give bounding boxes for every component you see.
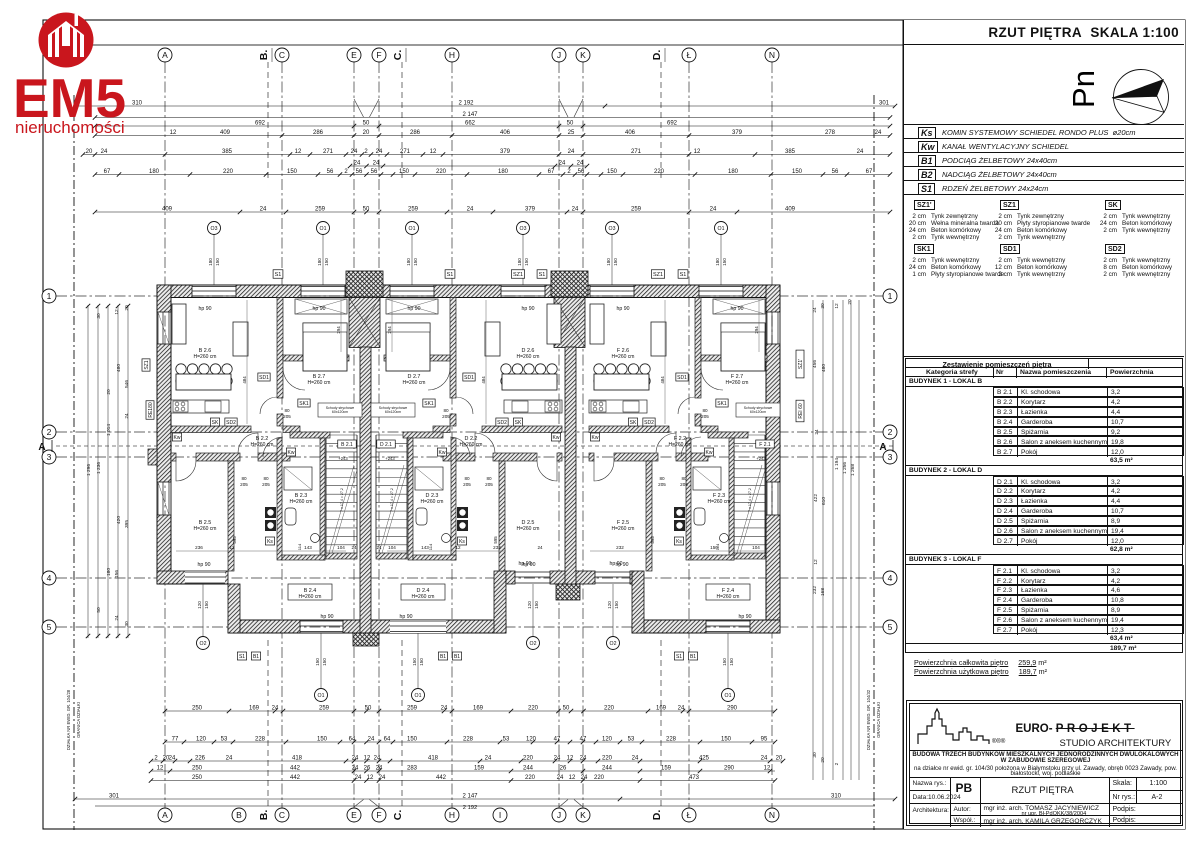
svg-text:80: 80 bbox=[241, 476, 247, 481]
svg-text:+243: +243 bbox=[338, 456, 348, 461]
interior walls bbox=[277, 298, 283, 399]
svg-text:26: 26 bbox=[364, 765, 371, 771]
svg-text:O1: O1 bbox=[415, 693, 422, 699]
svg-text:2: 2 bbox=[47, 427, 52, 437]
svg-text:226: 226 bbox=[195, 755, 206, 761]
svg-text:205: 205 bbox=[240, 482, 248, 487]
svg-text:205: 205 bbox=[485, 482, 493, 487]
svg-text:150: 150 bbox=[729, 658, 734, 666]
svg-text:409: 409 bbox=[220, 130, 231, 136]
svg-text:D.: D. bbox=[651, 810, 663, 821]
svg-text:O2: O2 bbox=[530, 641, 537, 647]
svg-text:SZ1: SZ1 bbox=[653, 272, 663, 278]
svg-text:hp 90: hp 90 bbox=[731, 306, 744, 312]
svg-text:1: 1 bbox=[888, 291, 893, 301]
svg-text:168: 168 bbox=[820, 588, 826, 596]
axis circles top bbox=[158, 48, 172, 62]
svg-text:24: 24 bbox=[114, 615, 120, 621]
svg-text:O1: O1 bbox=[318, 693, 325, 699]
svg-text:286: 286 bbox=[410, 130, 421, 136]
sofa and table bbox=[590, 304, 604, 344]
svg-text:hp 90: hp 90 bbox=[199, 306, 212, 312]
svg-text:A: A bbox=[162, 50, 168, 60]
svg-text:150: 150 bbox=[524, 258, 529, 266]
svg-text:220: 220 bbox=[528, 705, 539, 711]
svg-text:20: 20 bbox=[776, 755, 783, 761]
svg-text:205: 205 bbox=[463, 482, 471, 487]
svg-text:24: 24 bbox=[351, 149, 358, 155]
svg-text:12: 12 bbox=[430, 149, 437, 155]
svg-text:205: 205 bbox=[680, 482, 688, 487]
svg-text:385: 385 bbox=[222, 149, 233, 155]
svg-text:150: 150 bbox=[607, 169, 618, 175]
svg-text:169: 169 bbox=[249, 705, 260, 711]
svg-text:O3: O3 bbox=[609, 226, 616, 232]
svg-text:S1: S1 bbox=[447, 272, 454, 278]
svg-text:DZIAŁKA NR EWID. GR. 104/28: DZIAŁKA NR EWID. GR. 104/28 bbox=[66, 689, 71, 750]
wall labels bottom bbox=[237, 652, 246, 660]
middle bottom wall section bbox=[506, 571, 515, 584]
bed bbox=[721, 323, 765, 371]
svg-text:67: 67 bbox=[866, 169, 873, 175]
svg-text:12: 12 bbox=[694, 149, 701, 155]
svg-text:24: 24 bbox=[373, 160, 380, 166]
svg-text:205: 205 bbox=[658, 482, 666, 487]
svg-text:Kw: Kw bbox=[174, 435, 181, 441]
svg-text:24: 24 bbox=[580, 755, 587, 761]
kitchen counter & hob bbox=[504, 400, 562, 413]
svg-text:53: 53 bbox=[628, 736, 635, 742]
svg-text:SK1: SK1 bbox=[424, 401, 434, 407]
svg-text:425: 425 bbox=[699, 755, 710, 761]
bathroom bbox=[686, 438, 691, 560]
svg-text:150: 150 bbox=[614, 601, 619, 609]
svg-text:S1: S1 bbox=[680, 272, 687, 278]
svg-text:B 2.1: B 2.1 bbox=[341, 442, 353, 448]
svg-text:B: B bbox=[236, 810, 242, 820]
svg-text:24: 24 bbox=[441, 705, 448, 711]
svg-text:24: 24 bbox=[374, 755, 381, 761]
svg-text:480: 480 bbox=[116, 364, 122, 372]
svg-text:24: 24 bbox=[557, 775, 564, 781]
svg-text:143: 143 bbox=[421, 545, 429, 550]
svg-text:24: 24 bbox=[875, 130, 882, 136]
svg-text:O1: O1 bbox=[725, 693, 732, 699]
svg-text:180: 180 bbox=[728, 169, 739, 175]
svg-text:SD2: SD2 bbox=[226, 420, 236, 426]
svg-text:B1: B1 bbox=[440, 654, 446, 660]
svg-text:12: 12 bbox=[157, 765, 164, 771]
svg-text:K: K bbox=[580, 50, 586, 60]
svg-text:24: 24 bbox=[376, 765, 383, 771]
svg-text:220: 220 bbox=[523, 755, 534, 761]
svg-text:484: 484 bbox=[660, 376, 665, 384]
flue block Ks bbox=[457, 507, 468, 518]
svg-text:159: 159 bbox=[661, 765, 672, 771]
svg-text:1 236: 1 236 bbox=[96, 462, 102, 474]
svg-text:12: 12 bbox=[295, 149, 302, 155]
svg-text:385: 385 bbox=[785, 149, 796, 155]
svg-text:220: 220 bbox=[594, 775, 605, 781]
bathroom bbox=[408, 438, 413, 560]
svg-text:2: 2 bbox=[888, 427, 893, 437]
wardrobe with X bbox=[713, 299, 765, 314]
svg-text:1: 1 bbox=[47, 291, 52, 301]
exterior top wall bbox=[157, 285, 192, 298]
svg-text:150: 150 bbox=[534, 601, 539, 609]
svg-text:159: 159 bbox=[474, 765, 485, 771]
svg-text:O3: O3 bbox=[520, 226, 527, 232]
svg-text:180: 180 bbox=[517, 258, 522, 266]
kitchen counter & hob bbox=[589, 400, 647, 413]
svg-text:47: 47 bbox=[580, 736, 587, 742]
svg-text:442: 442 bbox=[290, 765, 301, 771]
svg-text:REI 60: REI 60 bbox=[798, 403, 804, 419]
svg-text:114: 114 bbox=[297, 543, 302, 550]
svg-text:D.: D. bbox=[651, 50, 663, 61]
svg-text:24: 24 bbox=[351, 545, 357, 550]
svg-text:SK: SK bbox=[212, 420, 219, 426]
svg-text:24: 24 bbox=[710, 206, 717, 212]
svg-text:12: 12 bbox=[455, 545, 461, 550]
stair flight bbox=[734, 434, 765, 436]
svg-text:24: 24 bbox=[814, 429, 820, 435]
svg-text:104: 104 bbox=[337, 545, 345, 550]
svg-text:50: 50 bbox=[567, 120, 574, 126]
svg-text:30: 30 bbox=[96, 313, 102, 319]
svg-text:12: 12 bbox=[834, 303, 840, 309]
svg-text:150: 150 bbox=[215, 258, 220, 266]
chimney protrusion middle bottom bbox=[556, 584, 580, 600]
svg-text:26: 26 bbox=[560, 765, 567, 771]
svg-text:150: 150 bbox=[419, 658, 424, 666]
svg-text:1 296: 1 296 bbox=[86, 464, 92, 476]
svg-text:80: 80 bbox=[659, 476, 665, 481]
svg-text:B1: B1 bbox=[253, 654, 259, 660]
svg-text:418: 418 bbox=[292, 755, 303, 761]
svg-text:1 256: 1 256 bbox=[842, 462, 848, 474]
svg-text:220: 220 bbox=[436, 169, 447, 175]
svg-text:80: 80 bbox=[681, 476, 687, 481]
svg-text:F 2.1: F 2.1 bbox=[759, 442, 771, 448]
interior walls bbox=[695, 298, 701, 399]
svg-text:150: 150 bbox=[721, 736, 732, 742]
bottom wall left section (axis 4) bbox=[157, 571, 228, 584]
svg-text:259: 259 bbox=[631, 206, 642, 212]
svg-text:150: 150 bbox=[710, 545, 718, 550]
svg-text:4: 4 bbox=[888, 573, 893, 583]
svg-text:220: 220 bbox=[604, 705, 615, 711]
svg-text:7 x 17,4 = 27,2: 7 x 17,4 = 27,2 bbox=[340, 488, 344, 512]
svg-text:H=260 cm: H=260 cm bbox=[194, 354, 217, 360]
svg-text:180: 180 bbox=[715, 258, 720, 266]
svg-text:24: 24 bbox=[812, 307, 818, 313]
svg-text:24: 24 bbox=[572, 206, 579, 212]
svg-text:80: 80 bbox=[443, 408, 449, 413]
axis circles left/right bbox=[42, 289, 56, 303]
svg-text:77: 77 bbox=[172, 736, 179, 742]
svg-text:24: 24 bbox=[260, 206, 267, 212]
svg-text:294: 294 bbox=[754, 326, 759, 334]
svg-text:220: 220 bbox=[602, 755, 613, 761]
svg-text:150: 150 bbox=[407, 736, 418, 742]
north arrow Pn bbox=[904, 45, 1186, 145]
svg-text:J: J bbox=[557, 50, 561, 60]
svg-text:379: 379 bbox=[732, 130, 743, 136]
svg-text:24: 24 bbox=[577, 160, 584, 166]
svg-text:205: 205 bbox=[701, 414, 709, 419]
svg-text:150: 150 bbox=[792, 169, 803, 175]
svg-text:24: 24 bbox=[581, 775, 588, 781]
svg-text:228: 228 bbox=[255, 736, 266, 742]
svg-text:®®®: ®®® bbox=[992, 738, 1006, 745]
svg-text:395: 395 bbox=[124, 520, 130, 528]
svg-text:H: H bbox=[449, 810, 455, 820]
svg-text:220: 220 bbox=[654, 169, 665, 175]
svg-text:Kw: Kw bbox=[706, 450, 713, 456]
svg-text:150: 150 bbox=[399, 169, 410, 175]
svg-text:692: 692 bbox=[255, 120, 266, 126]
svg-text:B1: B1 bbox=[454, 654, 460, 660]
title block bbox=[906, 700, 1183, 826]
svg-text:150: 150 bbox=[722, 258, 727, 266]
svg-text:H=260 cm: H=260 cm bbox=[708, 499, 731, 505]
svg-text:2: 2 bbox=[834, 762, 840, 765]
svg-text:271: 271 bbox=[631, 149, 642, 155]
svg-text:B.: B. bbox=[258, 810, 270, 821]
svg-text:56: 56 bbox=[327, 169, 334, 175]
wall construction legend bbox=[904, 194, 1184, 357]
interior walls bbox=[450, 298, 456, 399]
svg-text:DZIAŁKA NR EWID. GR. 104/32: DZIAŁKA NR EWID. GR. 104/32 bbox=[866, 689, 871, 750]
svg-text:610: 610 bbox=[821, 497, 827, 505]
bathroom bbox=[277, 438, 282, 560]
svg-text:473: 473 bbox=[689, 775, 700, 781]
svg-text:Ł: Ł bbox=[687, 810, 692, 820]
skyline logo bbox=[916, 706, 1016, 746]
svg-text:180: 180 bbox=[606, 258, 611, 266]
svg-text:150: 150 bbox=[287, 169, 298, 175]
svg-text:484: 484 bbox=[481, 376, 486, 384]
svg-text:12: 12 bbox=[569, 775, 576, 781]
svg-text:150: 150 bbox=[317, 736, 328, 742]
svg-text:379: 379 bbox=[500, 149, 511, 155]
svg-text:hp 90: hp 90 bbox=[519, 561, 532, 567]
svg-text:244: 244 bbox=[523, 765, 534, 771]
dining table and chairs bbox=[176, 364, 186, 374]
wardrobe with X bbox=[386, 299, 438, 314]
svg-text:271: 271 bbox=[400, 149, 411, 155]
svg-text:O3: O3 bbox=[211, 226, 218, 232]
svg-text:2: 2 bbox=[364, 149, 368, 155]
horizontal axis grid lines bbox=[56, 295, 896, 297]
svg-text:I: I bbox=[499, 810, 501, 820]
svg-text:50: 50 bbox=[563, 705, 570, 711]
svg-text:C.: C. bbox=[392, 810, 404, 821]
svg-text:283: 283 bbox=[407, 765, 418, 771]
bed bbox=[386, 323, 430, 371]
svg-text:24: 24 bbox=[376, 545, 382, 550]
svg-text:24: 24 bbox=[559, 160, 566, 166]
svg-text:O1: O1 bbox=[320, 226, 327, 232]
svg-text:SK1: SK1 bbox=[717, 401, 727, 407]
svg-text:418: 418 bbox=[428, 755, 439, 761]
svg-text:301: 301 bbox=[879, 100, 890, 106]
bed bbox=[303, 323, 347, 371]
svg-text:24: 24 bbox=[857, 149, 864, 155]
svg-text:S1: S1 bbox=[539, 272, 546, 278]
svg-text:294: 294 bbox=[387, 326, 392, 334]
svg-text:hp 90: hp 90 bbox=[313, 306, 326, 312]
svg-text:406: 406 bbox=[500, 130, 511, 136]
svg-text:B1: B1 bbox=[690, 654, 696, 660]
svg-text:hp 90: hp 90 bbox=[198, 562, 211, 568]
svg-text:24: 24 bbox=[467, 206, 474, 212]
svg-text:1 014: 1 014 bbox=[106, 424, 112, 436]
svg-text:53: 53 bbox=[221, 736, 228, 742]
svg-text:180: 180 bbox=[106, 568, 112, 576]
svg-text:A: A bbox=[38, 442, 45, 453]
window axis markers top bbox=[213, 235, 215, 285]
svg-text:24: 24 bbox=[485, 755, 492, 761]
svg-text:2: 2 bbox=[567, 169, 571, 175]
svg-text:Ks: Ks bbox=[676, 539, 682, 545]
svg-text:220: 220 bbox=[525, 775, 536, 781]
svg-text:Kw: Kw bbox=[553, 435, 560, 441]
svg-text:K: K bbox=[580, 810, 586, 820]
dining table and chairs bbox=[547, 364, 557, 374]
bottom bay walls (axis 5) bbox=[228, 620, 300, 633]
svg-text:120: 120 bbox=[527, 601, 532, 609]
svg-text:278: 278 bbox=[825, 130, 836, 136]
svg-text:286: 286 bbox=[313, 130, 324, 136]
svg-text:259: 259 bbox=[408, 206, 419, 212]
svg-text:120: 120 bbox=[526, 736, 537, 742]
svg-text:O1: O1 bbox=[718, 226, 725, 232]
svg-text:20: 20 bbox=[124, 305, 130, 311]
svg-text:hp 90: hp 90 bbox=[408, 306, 421, 312]
svg-text:104: 104 bbox=[752, 545, 760, 550]
svg-text:Kw: Kw bbox=[592, 435, 599, 441]
svg-text:30: 30 bbox=[124, 621, 130, 627]
svg-text:24: 24 bbox=[379, 775, 386, 781]
left dimension ladder bbox=[87, 305, 89, 638]
svg-text:SD1: SD1 bbox=[464, 375, 474, 381]
svg-text:3: 3 bbox=[888, 452, 893, 462]
svg-text:180: 180 bbox=[149, 169, 160, 175]
svg-text:205: 205 bbox=[262, 482, 270, 487]
svg-text:30: 30 bbox=[812, 752, 818, 758]
sofa and table bbox=[172, 304, 186, 344]
svg-text:24: 24 bbox=[101, 149, 108, 155]
dining table and chairs bbox=[594, 364, 604, 374]
svg-text:104: 104 bbox=[388, 545, 396, 550]
svg-text:12: 12 bbox=[567, 755, 574, 761]
svg-text:150: 150 bbox=[722, 658, 727, 666]
svg-text:H=260 cm: H=260 cm bbox=[251, 442, 274, 448]
svg-text:4: 4 bbox=[47, 573, 52, 583]
svg-text:SK: SK bbox=[630, 420, 637, 426]
svg-text:12: 12 bbox=[114, 309, 120, 315]
svg-text:24: 24 bbox=[537, 545, 543, 550]
svg-text:420: 420 bbox=[116, 516, 122, 524]
svg-text:30: 30 bbox=[820, 303, 826, 309]
svg-text:150: 150 bbox=[315, 658, 320, 666]
svg-text:150: 150 bbox=[322, 658, 327, 666]
svg-text:250: 250 bbox=[192, 705, 203, 711]
door arcs bbox=[456, 397, 473, 414]
svg-text:Kw: Kw bbox=[439, 450, 446, 456]
svg-text:236: 236 bbox=[195, 545, 203, 550]
kitchen counter & hob bbox=[171, 400, 229, 413]
svg-text:hp 90: hp 90 bbox=[400, 614, 413, 620]
svg-text:232: 232 bbox=[616, 545, 624, 550]
svg-text:C.: C. bbox=[392, 50, 404, 61]
svg-text:3: 3 bbox=[47, 452, 52, 462]
svg-text:20: 20 bbox=[363, 130, 370, 136]
svg-text:60x120cm: 60x120cm bbox=[385, 410, 401, 414]
svg-text:1 268: 1 268 bbox=[850, 464, 856, 476]
svg-text:228: 228 bbox=[463, 736, 474, 742]
svg-text:456: 456 bbox=[812, 360, 818, 368]
svg-text:H: H bbox=[449, 50, 455, 60]
svg-text:24: 24 bbox=[568, 149, 575, 155]
svg-text:20: 20 bbox=[86, 149, 93, 155]
svg-text:SZ1: SZ1 bbox=[144, 360, 150, 369]
svg-text:595: 595 bbox=[493, 536, 498, 544]
svg-text:80: 80 bbox=[263, 476, 269, 481]
svg-text:GRANICA DZIAŁKI: GRANICA DZIAŁKI bbox=[876, 702, 881, 738]
svg-text:120: 120 bbox=[197, 601, 202, 609]
svg-text:294: 294 bbox=[336, 326, 341, 334]
svg-text:H=260 cm: H=260 cm bbox=[299, 594, 322, 600]
svg-text:H=260 cm: H=260 cm bbox=[290, 499, 313, 505]
door arcs bbox=[678, 397, 695, 414]
svg-text:2: 2 bbox=[344, 169, 348, 175]
svg-text:S1: S1 bbox=[275, 272, 282, 278]
svg-text:150: 150 bbox=[324, 258, 329, 266]
svg-text:GRANICA DZIAŁKI: GRANICA DZIAŁKI bbox=[76, 702, 81, 738]
svg-text:250: 250 bbox=[192, 765, 203, 771]
svg-text:24: 24 bbox=[376, 149, 383, 155]
flue block Ks bbox=[265, 507, 276, 518]
svg-text:56: 56 bbox=[832, 169, 839, 175]
svg-text:H=260 cm: H=260 cm bbox=[421, 499, 444, 505]
svg-text:50: 50 bbox=[96, 607, 102, 613]
window markers bottom bbox=[202, 584, 204, 636]
svg-text:H=260 cm: H=260 cm bbox=[308, 380, 331, 386]
svg-text:232: 232 bbox=[812, 586, 818, 594]
stair flight bbox=[326, 434, 357, 436]
svg-text:220: 220 bbox=[223, 169, 234, 175]
svg-text:24: 24 bbox=[761, 755, 768, 761]
svg-text:SD1: SD1 bbox=[259, 375, 269, 381]
svg-text:67: 67 bbox=[104, 169, 111, 175]
svg-text:271: 271 bbox=[323, 149, 334, 155]
svg-text:Kw: Kw bbox=[288, 450, 295, 456]
svg-text:25: 25 bbox=[568, 130, 575, 136]
svg-text:692: 692 bbox=[667, 120, 678, 126]
svg-text:J: J bbox=[557, 810, 561, 820]
svg-text:A: A bbox=[162, 810, 168, 820]
svg-text:546: 546 bbox=[124, 380, 130, 388]
svg-text:H=260 cm: H=260 cm bbox=[612, 354, 635, 360]
svg-text:56: 56 bbox=[371, 169, 378, 175]
svg-text:80: 80 bbox=[486, 476, 492, 481]
svg-text:24: 24 bbox=[368, 736, 375, 742]
bottom dimension rows bbox=[165, 710, 775, 712]
property boundary lines bbox=[73, 95, 75, 830]
